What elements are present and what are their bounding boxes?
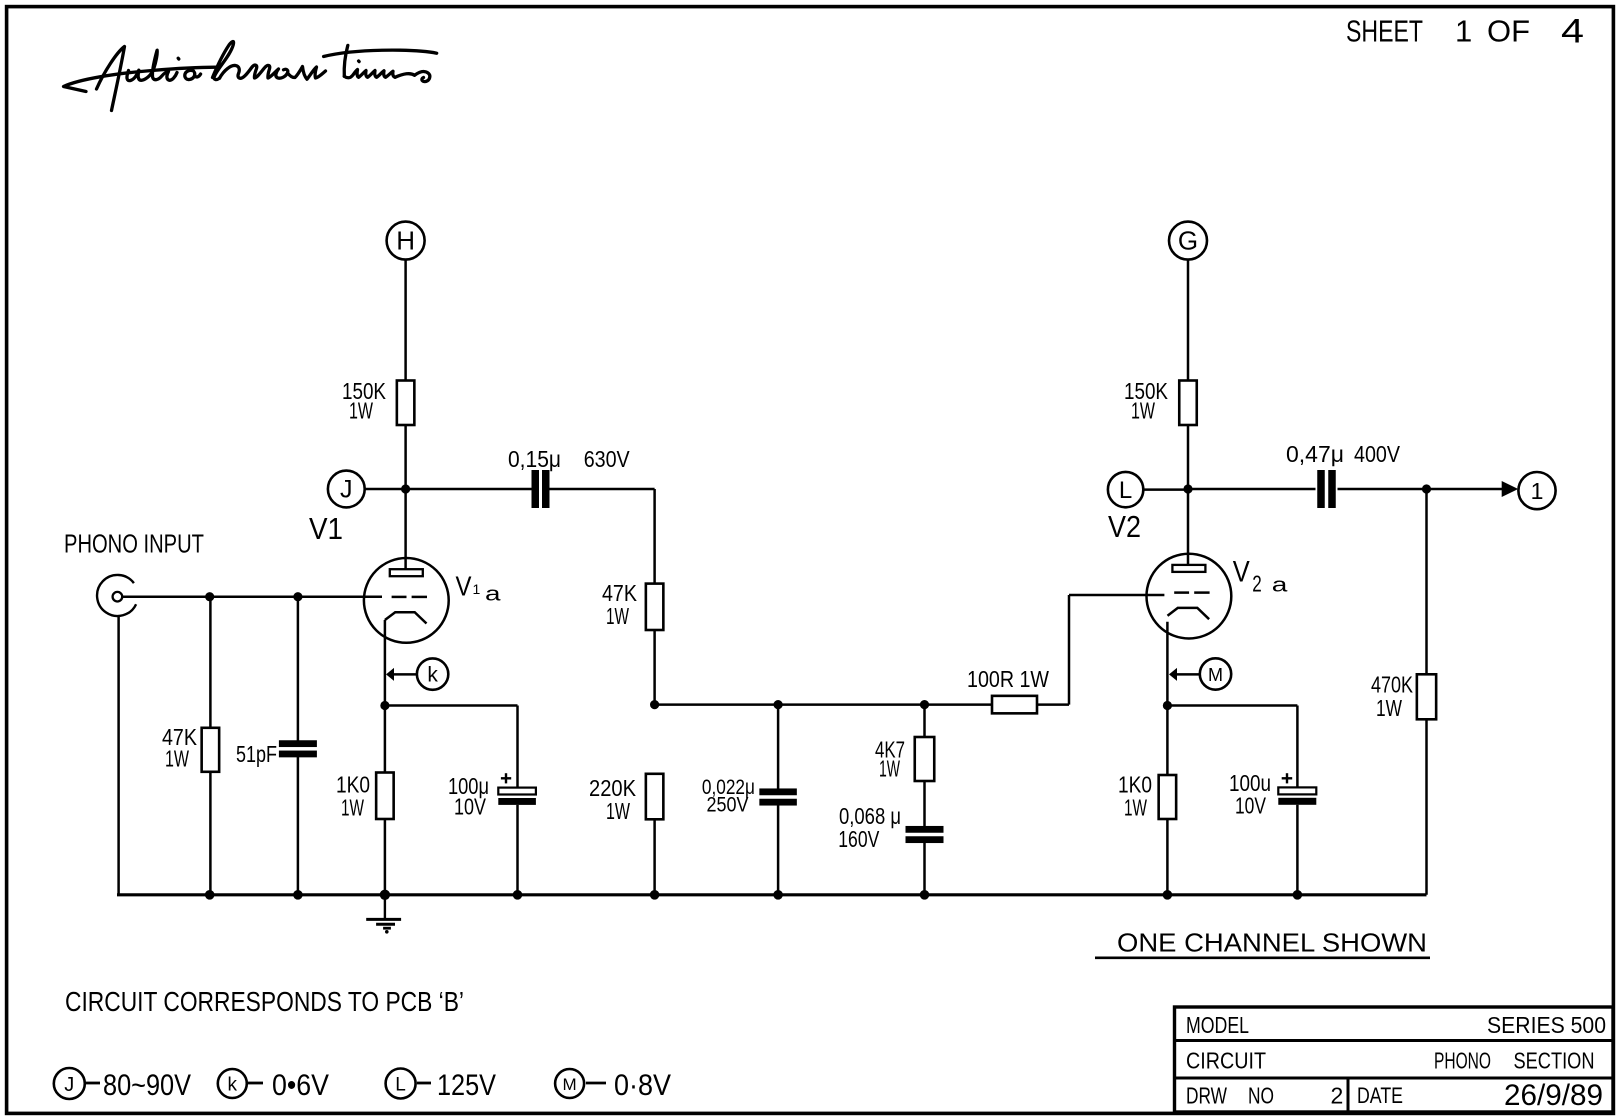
- svg-text:SERIES 500: SERIES 500: [1487, 1012, 1606, 1038]
- svg-text:470K: 470K: [1371, 672, 1414, 698]
- svg-text:PHONO: PHONO: [1434, 1048, 1491, 1074]
- capacitor 0,022u 250V: [702, 705, 797, 895]
- junction anode node V1: [401, 484, 410, 493]
- resistor 4K7 1W: [875, 705, 934, 782]
- wire cathode node to 100u: [385, 706, 518, 788]
- svg-text:250V: 250V: [707, 794, 749, 817]
- svg-text:MODEL: MODEL: [1186, 1012, 1249, 1038]
- logo: Audio Innovations handwritten signature: [64, 41, 437, 110]
- wire ground rail: [117, 893, 1427, 896]
- label V2a: [1233, 556, 1289, 597]
- capacitor 0,068u 160V: [838, 781, 943, 895]
- title block CIRCUIT / PHONO SECTION: [1186, 1048, 1595, 1074]
- node M (cathode test point): [1169, 658, 1231, 689]
- svg-text:630V: 630V: [584, 446, 631, 472]
- wire cathode node to 100u right: [1167, 706, 1297, 788]
- wire phono ground stem: [117, 616, 120, 895]
- triode V2a: [1147, 554, 1232, 639]
- node H (HT supply): [387, 222, 425, 260]
- node K (cathode test point): [386, 658, 448, 689]
- junction V1 cathode node: [380, 701, 389, 710]
- wire V2 cathode to cathode node: [1166, 622, 1169, 706]
- svg-text:400V: 400V: [1354, 441, 1401, 467]
- resistor 47K 1W (RIAA series): [602, 580, 663, 630]
- junction rail 220K: [650, 890, 660, 900]
- svg-text:SHEET: SHEET: [1346, 14, 1423, 49]
- node 1 (output): [1518, 472, 1555, 509]
- title block DRW NO 2 / DATE 26/9/89: [1186, 1079, 1603, 1112]
- svg-text:2: 2: [1331, 1083, 1344, 1109]
- svg-text:0,15μ: 0,15μ: [508, 446, 561, 472]
- svg-text:4: 4: [1561, 13, 1584, 51]
- svg-text:0·8V: 0·8V: [614, 1069, 671, 1102]
- svg-text:51pF: 51pF: [236, 741, 277, 767]
- junction 47K/220K: [650, 700, 659, 709]
- legend node K voltage: [218, 1069, 329, 1102]
- wire C 0,15u to 47K column: [549, 489, 655, 584]
- resistor 150K 1W (V1 anode load): [342, 378, 414, 425]
- resistor 1K0 1W (V2 cathode): [1118, 706, 1176, 895]
- svg-text:1W: 1W: [606, 603, 629, 629]
- label V1: [309, 511, 343, 546]
- svg-text:V2: V2: [1108, 509, 1141, 544]
- phono input connector: [97, 575, 136, 616]
- resistor 150K 1W (V2 anode load): [1124, 378, 1197, 425]
- junction rail 51pF: [293, 890, 303, 900]
- junction rail 0,068u: [920, 890, 930, 900]
- svg-text:125V: 125V: [437, 1069, 496, 1102]
- svg-text:1W: 1W: [165, 746, 189, 772]
- capacitor 100u 10V (V2 cathode bypass): [1229, 770, 1316, 895]
- svg-text:J: J: [64, 1074, 74, 1096]
- resistor 47K 1W (input load): [162, 597, 219, 895]
- svg-text:SECTION: SECTION: [1514, 1048, 1595, 1074]
- svg-text:NO: NO: [1248, 1083, 1274, 1109]
- label V1a: [456, 570, 502, 605]
- wire 47K to mid node: [653, 630, 656, 705]
- svg-text:1W: 1W: [1124, 795, 1147, 821]
- svg-text:OF: OF: [1487, 14, 1530, 49]
- svg-text:100R 1W: 100R 1W: [967, 666, 1049, 692]
- svg-text:1W: 1W: [606, 798, 630, 824]
- junction rail 0,022u: [773, 890, 783, 900]
- svg-text:1: 1: [1531, 478, 1544, 504]
- svg-text:CIRCUIT: CIRCUIT: [1186, 1048, 1266, 1074]
- svg-text:PHONO INPUT: PHONO INPUT: [64, 529, 204, 559]
- resistor 1K0 1W (V1 cathode): [336, 706, 394, 895]
- ground: [366, 895, 401, 934]
- wire V1 cathode to cathode node: [384, 620, 387, 706]
- svg-text:L: L: [1119, 477, 1132, 504]
- resistor 220K 1W: [589, 774, 663, 895]
- junction 4K7 top: [920, 700, 929, 709]
- svg-text:1W: 1W: [1131, 398, 1155, 424]
- svg-text:a: a: [485, 583, 502, 605]
- svg-text:1: 1: [473, 581, 481, 597]
- svg-text:k: k: [228, 1075, 238, 1096]
- svg-text:V1: V1: [309, 511, 343, 546]
- wire R 150K to anode node V2: [1187, 425, 1190, 489]
- svg-text:0•6V: 0•6V: [272, 1069, 329, 1102]
- wire anode node to C 0,47u: [1188, 488, 1316, 491]
- svg-text:10V: 10V: [454, 794, 487, 820]
- triode V1a: [364, 558, 449, 643]
- junction 0,022u top: [774, 700, 783, 709]
- svg-text:2: 2: [1252, 571, 1262, 597]
- legend node J voltage: [54, 1068, 191, 1102]
- note ONE CHANNEL SHOWN: [1095, 928, 1430, 958]
- resistor 100R 1W (grid stopper): [925, 666, 1070, 713]
- svg-text:1W: 1W: [1376, 695, 1402, 721]
- wire phono input to V1 grid: [122, 595, 382, 598]
- capacitor 100u 10V (V1 cathode bypass): [448, 773, 536, 895]
- legend node M voltage: [555, 1069, 671, 1102]
- resistor 470K 1W (output load): [1371, 489, 1436, 895]
- node J (voltage test point): [328, 471, 402, 508]
- title block table: [1175, 1007, 1614, 1112]
- junction rail 1K0 V1 / ground: [380, 890, 390, 900]
- junction rail 100u V2: [1293, 890, 1303, 900]
- label V2: [1108, 509, 1141, 544]
- junction rail 1K0 V2: [1163, 890, 1173, 900]
- svg-text:a: a: [1272, 575, 1289, 597]
- wire H to R 150K: [404, 260, 407, 381]
- svg-text:G: G: [1178, 226, 1198, 256]
- svg-text:V: V: [1233, 556, 1250, 589]
- capacitor 0,47u 400V (output coupling): [1286, 441, 1401, 508]
- node G (HT supply): [1169, 222, 1207, 260]
- svg-text:26/9/89: 26/9/89: [1504, 1079, 1603, 1112]
- svg-text:1W: 1W: [879, 756, 900, 782]
- svg-text:k: k: [427, 664, 438, 687]
- svg-text:160V: 160V: [838, 826, 880, 852]
- wire anode node to C 0,15u: [406, 488, 532, 491]
- junction V2 cathode node: [1163, 701, 1172, 710]
- svg-text:L: L: [395, 1075, 406, 1096]
- svg-text:1W: 1W: [341, 795, 364, 821]
- junction anode node V2: [1183, 484, 1192, 493]
- capacitor 0,15u 630V (coupling): [508, 446, 630, 508]
- svg-text:J: J: [340, 476, 353, 504]
- svg-text:H: H: [396, 226, 415, 256]
- wire C 0,47u to output: [1338, 488, 1427, 491]
- svg-text:V: V: [456, 570, 472, 601]
- capacitor 51pF (input): [236, 597, 317, 895]
- title: SHEET 1 OF 4: [1346, 13, 1584, 51]
- wire mid bus: [655, 703, 925, 706]
- svg-text:DATE: DATE: [1357, 1083, 1403, 1108]
- svg-text:DRW: DRW: [1186, 1083, 1227, 1109]
- svg-text:10V: 10V: [1235, 793, 1266, 819]
- junction output node: [1422, 484, 1431, 493]
- svg-text:M: M: [1208, 665, 1223, 685]
- junction rail 100u V1: [513, 890, 523, 900]
- svg-text:80~90V: 80~90V: [103, 1069, 191, 1102]
- legend node L voltage: [386, 1069, 496, 1103]
- wire G to R 150K: [1187, 260, 1190, 381]
- wire V2 anode lead: [1187, 489, 1190, 566]
- junction rail 47K: [205, 890, 215, 900]
- wire 100R to V2 grid: [1069, 595, 1164, 705]
- wire output arrow: [1427, 481, 1519, 497]
- node L (voltage test point): [1108, 472, 1184, 507]
- svg-text:0,47μ: 0,47μ: [1286, 441, 1344, 467]
- wire V1 anode lead: [404, 489, 407, 569]
- title block MODEL / SERIES 500: [1186, 1012, 1606, 1038]
- label PHONO INPUT: [64, 529, 204, 559]
- svg-text:1: 1: [1455, 14, 1472, 49]
- svg-text:ONE CHANNEL SHOWN: ONE CHANNEL SHOWN: [1117, 928, 1427, 958]
- svg-text:1W: 1W: [349, 398, 373, 424]
- junction grid wire / 47K input: [205, 592, 214, 601]
- svg-text:CIRCUIT CORRESPONDS TO PCB ‘B’: CIRCUIT CORRESPONDS TO PCB ‘B’: [65, 986, 464, 1017]
- svg-text:M: M: [563, 1075, 577, 1094]
- junction grid wire / 51pF: [293, 592, 302, 601]
- wire R 150K to anode node J: [404, 425, 407, 489]
- note CIRCUIT CORRESPONDS TO PCB 'B': [65, 986, 464, 1017]
